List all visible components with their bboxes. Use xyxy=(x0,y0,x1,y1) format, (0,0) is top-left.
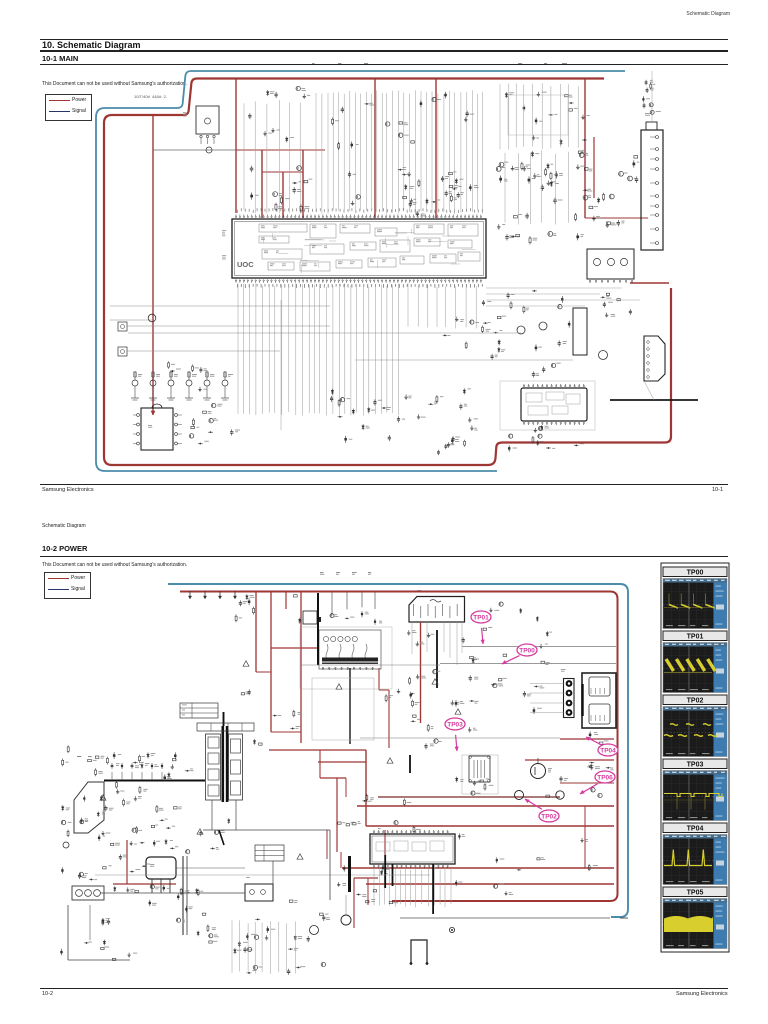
svg-text:TP01: TP01 xyxy=(473,614,489,621)
svg-text:TP00: TP00 xyxy=(519,647,535,654)
svg-text:TP03: TP03 xyxy=(447,721,463,728)
svg-text:TP00: TP00 xyxy=(687,570,704,577)
svg-text:TP05: TP05 xyxy=(687,890,704,897)
svg-text:TP04: TP04 xyxy=(600,747,616,754)
svg-text:TP06: TP06 xyxy=(597,774,613,781)
svg-text:TP02: TP02 xyxy=(687,698,704,705)
svg-text:TP04: TP04 xyxy=(687,826,704,833)
svg-text:TP01: TP01 xyxy=(687,634,704,641)
svg-text:TP03: TP03 xyxy=(687,762,704,769)
svg-text:TP02: TP02 xyxy=(541,813,557,820)
